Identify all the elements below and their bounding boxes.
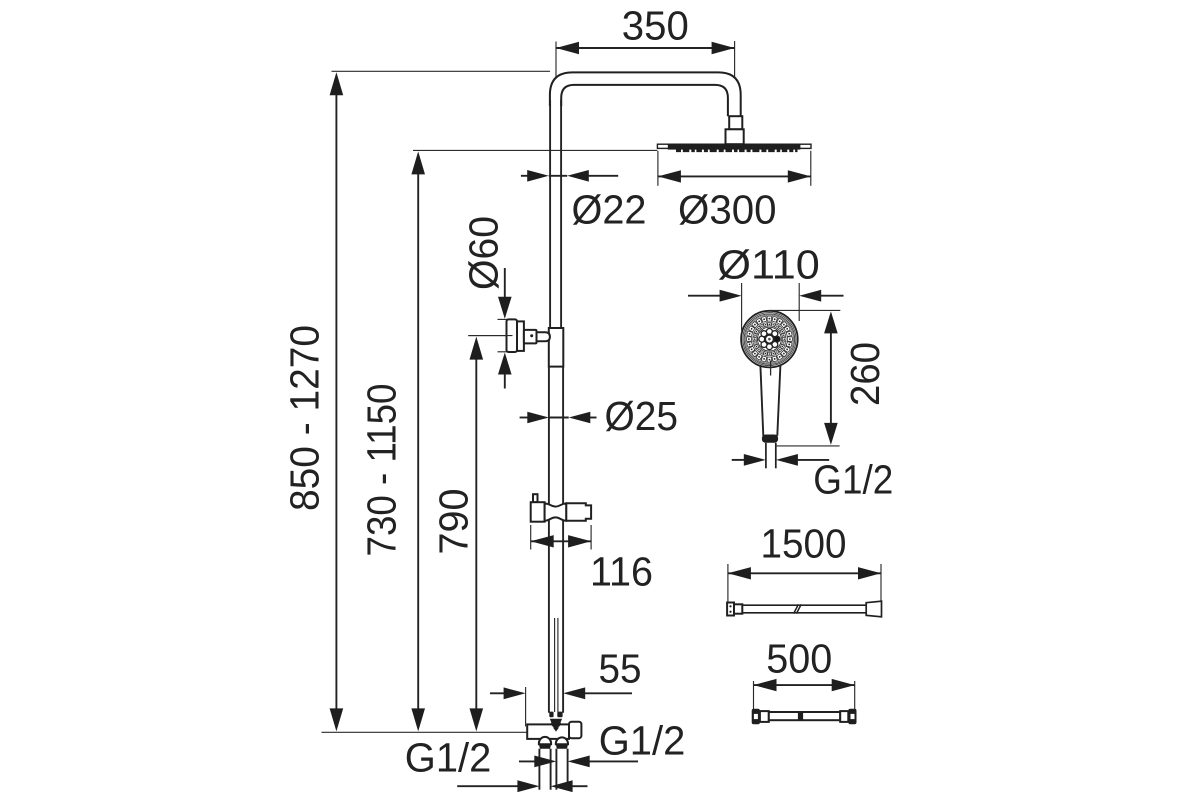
- wire: centre line into bracket: [468, 335, 512, 337]
- wall bracket: plate: [507, 319, 518, 352]
- handle nipple G1/2: [766, 443, 776, 469]
- dimension 260 (hand shower length): [770, 310, 888, 446]
- node: dimension 850 - 1270 (overall height): [282, 72, 344, 731]
- slider holder left block: [531, 502, 545, 522]
- hand shower handle: [760, 365, 780, 436]
- node: dimension 730 - 1150 (to head face): [359, 151, 426, 731]
- dimension arrows right inlet pipe: [519, 756, 638, 768]
- node: dimension 350 (arm projection): [556, 3, 735, 105]
- svg-text:Ø300: Ø300: [678, 187, 777, 233]
- svg-text:790: 790: [431, 489, 477, 555]
- mixer valve body: [527, 724, 569, 739]
- inlet pipe right: [556, 749, 567, 790]
- shower arm (gooseneck): [550, 72, 741, 116]
- svg-text:G1/2: G1/2: [813, 457, 893, 503]
- wire: reference line to shower head face: [413, 149, 657, 151]
- riser lock nut: [549, 712, 562, 732]
- shower hose: [727, 601, 881, 617]
- hand shower face: [741, 311, 798, 368]
- inlet nut right: [556, 737, 568, 748]
- svg-text:260: 260: [842, 342, 888, 406]
- valve right port G1/2: [569, 722, 581, 739]
- dimension 1500 (hose length): [728, 521, 881, 603]
- svg-text:G1/2: G1/2: [599, 718, 686, 764]
- node: dimension 790 (to bracket centre): [431, 337, 484, 732]
- wall bracket: ring: [517, 321, 524, 351]
- svg-text:116: 116: [590, 549, 653, 595]
- slider holder grip: [545, 503, 567, 520]
- svg-text:1500: 1500: [761, 521, 847, 567]
- svg-text:850 - 1270: 850 - 1270: [282, 325, 328, 511]
- dimension Ø22 (riser pipe): [521, 170, 647, 233]
- dimension G1/2 (handle thread): [732, 454, 894, 503]
- slider holder nub: [533, 494, 538, 502]
- dimension Ø300 (head diameter): [658, 151, 811, 233]
- dimension 55 (valve offset): [490, 646, 642, 727]
- svg-text:Ø110: Ø110: [717, 242, 819, 288]
- svg-text:G1/2: G1/2: [405, 735, 492, 781]
- riser coupling sleeve: [549, 328, 564, 367]
- svg-text:Ø22: Ø22: [572, 187, 647, 233]
- dimension Ø60 (bracket escutcheon): [461, 216, 513, 389]
- head mount block: [726, 129, 744, 144]
- inlet nut left: [539, 737, 551, 749]
- svg-text:350: 350: [622, 3, 689, 49]
- dimension Ø110 (hand shower head): [688, 242, 844, 331]
- inlet pipe left: [539, 749, 550, 790]
- svg-text:Ø60: Ø60: [461, 216, 507, 290]
- slider holder right block: [566, 503, 591, 520]
- riser pipe upper (Ø22): [550, 100, 561, 329]
- wire: top reference line (overall height): [332, 70, 551, 72]
- wall bracket: set screw dot: [530, 334, 533, 337]
- wire: bottom reference line (mounting level): [322, 731, 541, 733]
- dimension Ø25 (lower pipe): [520, 393, 678, 439]
- arm collar: [729, 116, 742, 129]
- wall bar: [752, 709, 857, 725]
- wire: reference line at wall bracket centre: [468, 335, 512, 337]
- svg-text:500: 500: [766, 636, 832, 682]
- dimension 500 (wall bar): [754, 636, 855, 710]
- svg-text:Ø25: Ø25: [605, 393, 679, 439]
- handle centre tick: [770, 361, 772, 376]
- handle end cap: [762, 435, 778, 443]
- wall bracket: cylinder: [524, 330, 537, 344]
- wall bracket: nipple: [537, 332, 550, 341]
- dimension 116 (holder): [531, 525, 653, 595]
- svg-text:730 - 1150: 730 - 1150: [359, 384, 405, 557]
- dimension arrows left inlet pipe: [457, 780, 587, 792]
- riser pipe lower (Ø25): [549, 367, 563, 713]
- svg-text:55: 55: [599, 646, 642, 692]
- rain shower head disc: [657, 144, 811, 151]
